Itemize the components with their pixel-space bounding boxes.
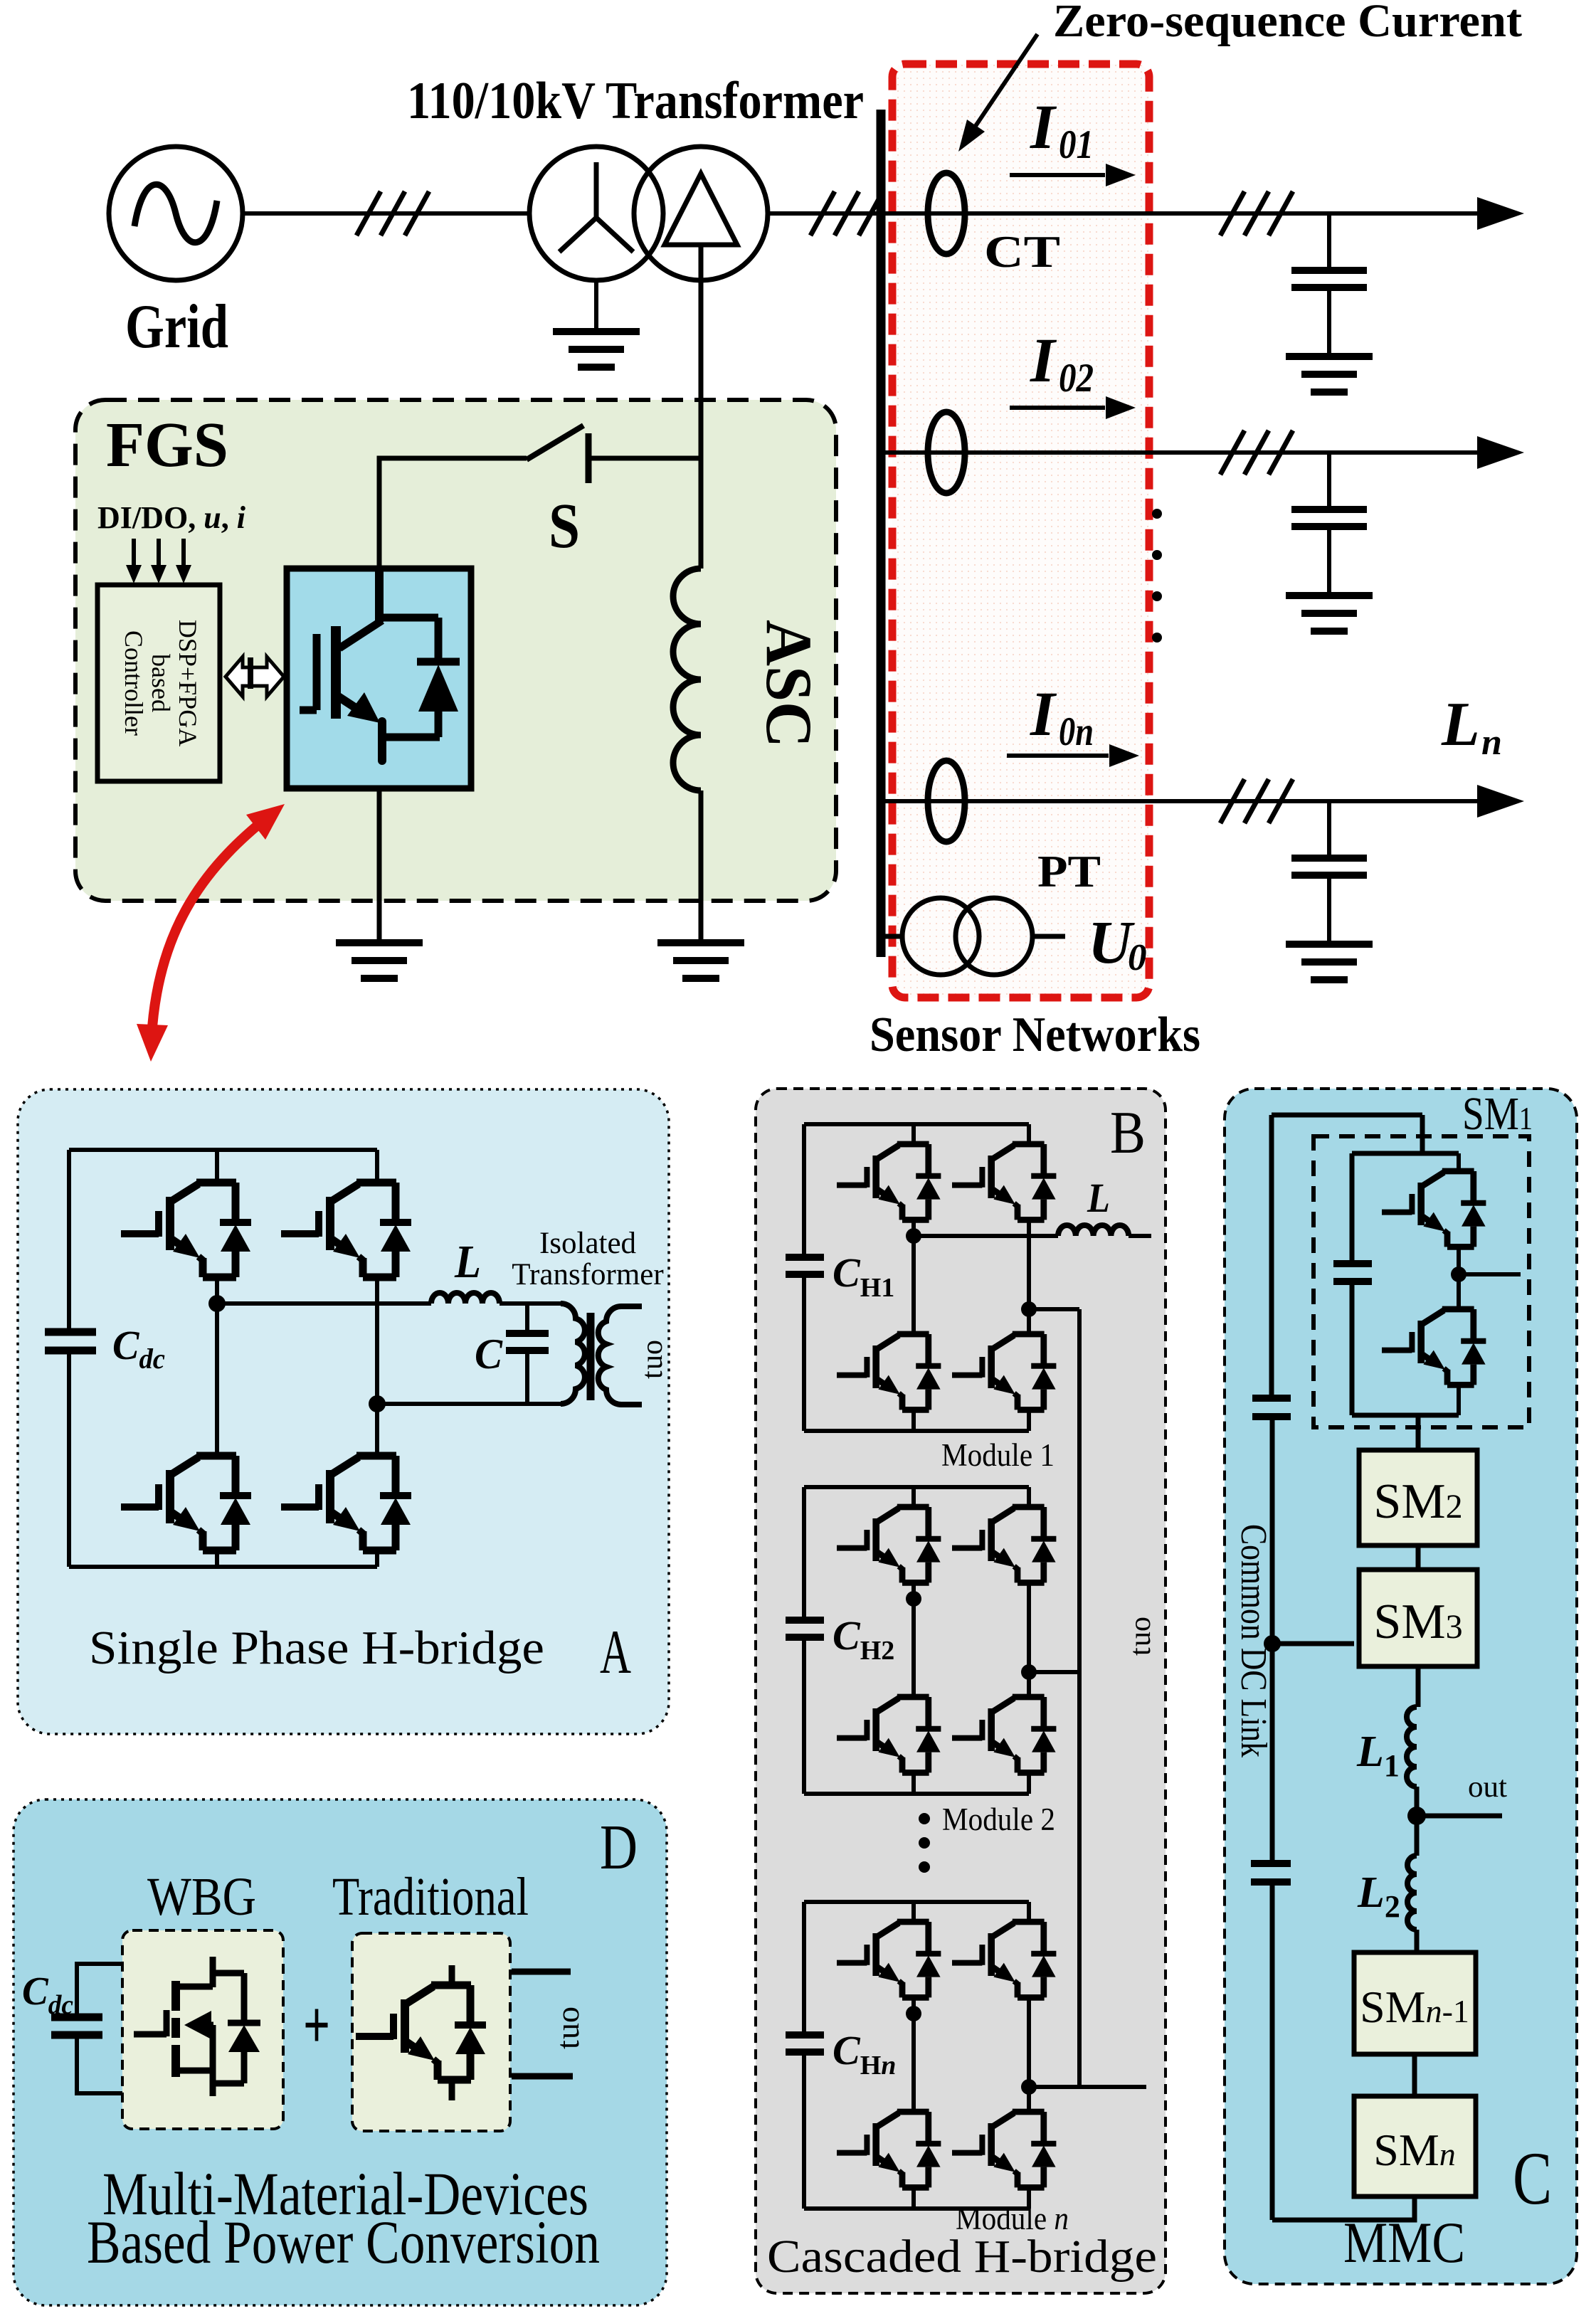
wire left node to IGBT n.3 bbox=[911, 2014, 916, 2112]
capacitor Cdc (D) bbox=[51, 2017, 102, 2035]
current arrow I0n bbox=[1007, 754, 1109, 758]
IGBT inside converter bbox=[300, 569, 460, 761]
module 1 right node bbox=[1021, 1301, 1037, 1317]
wire SM1 to SM2 bbox=[1416, 1415, 1421, 1450]
wire IGBT A2 to IGBT A4 bbox=[375, 1276, 379, 1456]
red detail arrow bbox=[152, 813, 273, 1037]
inductor L2 bbox=[1407, 1856, 1417, 1930]
IGBT module n upper-left bbox=[837, 1922, 941, 1997]
SM1 lower IGBT bbox=[1382, 1309, 1486, 1385]
H-bridge top rail bbox=[69, 1148, 377, 1152]
WBG MOSFET body arrow bbox=[184, 2011, 211, 2039]
wire node to IGBT A3 bbox=[215, 1304, 219, 1456]
capacitor C bbox=[506, 1333, 549, 1350]
IGBT module 2 lower-right bbox=[952, 1697, 1056, 1772]
transformer ground bbox=[553, 332, 640, 367]
module 1 top rail bbox=[804, 1122, 1029, 1126]
wire L to transformer bbox=[500, 1301, 561, 1306]
svg-text:PT: PT bbox=[1037, 846, 1101, 897]
wire IGBT to bottom rail bbox=[911, 2187, 916, 2209]
svg-text:Cascaded H-bridge: Cascaded H-bridge bbox=[767, 2231, 1157, 2283]
wire converter to ground bbox=[377, 788, 382, 943]
feeder 1 arrowhead bbox=[1477, 197, 1524, 230]
WBG MOSFET taps bbox=[179, 1987, 213, 2096]
wire to SM1 upper IGBT bbox=[1457, 1153, 1461, 1171]
double-headed comm arrow bbox=[226, 657, 284, 697]
SM2 box bbox=[1359, 1450, 1477, 1545]
ground feeder 1 bbox=[1286, 356, 1373, 392]
svg-text:u: u bbox=[549, 2023, 586, 2039]
DC link top wire bbox=[1272, 1115, 1422, 1153]
out bus bbox=[1077, 1309, 1082, 2087]
wire left node to IGBT 2.3 bbox=[911, 1599, 916, 1697]
ground feeder 2 bbox=[1286, 596, 1373, 631]
DC link node stub bbox=[1272, 1641, 1354, 1646]
DC link left rail bbox=[1272, 1115, 1272, 2220]
wire node to L2 bbox=[1415, 1816, 1420, 1856]
hash marks feeder 3 bbox=[1220, 779, 1293, 823]
IGBT A3 bbox=[121, 1456, 251, 1550]
wire to IGBT n.1 bbox=[911, 1902, 916, 1922]
wire IGBT to bottom rail bbox=[1027, 1772, 1031, 1794]
svg-text:o: o bbox=[636, 1340, 669, 1355]
module 2 bottom rail bbox=[804, 1792, 1029, 1796]
wire IGBT to bottom rail bbox=[1027, 2187, 1031, 2209]
IGBT module 1 lower-left bbox=[837, 1334, 941, 1410]
svg-text:S: S bbox=[549, 491, 580, 561]
PT transformer circles bbox=[902, 898, 979, 975]
station bus bbox=[877, 110, 886, 957]
capacitor CH1 bbox=[786, 1257, 824, 1274]
svg-text:L: L bbox=[1441, 690, 1480, 759]
WBG MOSFET channel bar bbox=[171, 1981, 180, 2077]
H-bridge left rail bbox=[67, 1150, 71, 1567]
wire IGBT to bottom rail bbox=[1027, 1410, 1031, 1431]
ASC ground bbox=[657, 943, 744, 978]
capacitor CH2 bbox=[786, 1620, 824, 1637]
wire SM1 lower IGBT to rail bbox=[1457, 1385, 1461, 1415]
hash marks grid line bbox=[356, 191, 429, 236]
wire IGBT to left node bbox=[911, 1582, 916, 1599]
svg-text:Traditional: Traditional bbox=[332, 1867, 529, 1927]
svg-text:u: u bbox=[636, 1355, 669, 1370]
shunt capacitor feeder 1 bbox=[1291, 213, 1367, 356]
out lead top (D) bbox=[512, 1969, 571, 1975]
module 2 top rail bbox=[804, 1485, 1029, 1489]
PT leads bbox=[881, 934, 1065, 939]
module n right node bbox=[1021, 2079, 1037, 2095]
svg-text:D: D bbox=[600, 1812, 638, 1883]
grid source circle bbox=[109, 147, 243, 280]
wire top rail to IGBT A2 bbox=[375, 1150, 379, 1183]
wire L2 to SMn-1 bbox=[1415, 1930, 1420, 1952]
IGBT module n lower-left bbox=[837, 2112, 941, 2187]
feeder 2 arrowhead bbox=[1477, 436, 1524, 469]
IGBT module 1 lower-right bbox=[952, 1334, 1056, 1410]
wire L to edge bbox=[1129, 1234, 1151, 1238]
svg-text:0n: 0n bbox=[1059, 709, 1094, 754]
wire IGBT to bottom rail bbox=[911, 1410, 916, 1431]
switch S pole bbox=[586, 433, 592, 483]
wire right leg bbox=[1027, 1582, 1031, 1697]
svg-text:CT: CT bbox=[984, 226, 1060, 277]
svg-text:n: n bbox=[1481, 722, 1502, 763]
out node (C) bbox=[1407, 1807, 1426, 1825]
wire ASC to ground bbox=[699, 791, 704, 943]
panel A box bbox=[18, 1089, 669, 1734]
delta symbol bbox=[665, 174, 737, 245]
current arrow I02 bbox=[1010, 406, 1105, 410]
IGBT module 1 upper-left bbox=[837, 1144, 941, 1220]
wire SMn-1 to SMn bbox=[1412, 2054, 1417, 2096]
DC link capacitor upper bbox=[1252, 1398, 1291, 1417]
wire transformer to bus bbox=[768, 211, 882, 216]
IGBT module n upper-right bbox=[952, 1922, 1056, 1997]
IGBT module 2 upper-right bbox=[952, 1507, 1056, 1582]
Traditional IGBT bbox=[356, 1985, 486, 2080]
svg-text:Based Power Conversion: Based Power Conversion bbox=[87, 2208, 600, 2276]
wire module 1 right node to out bus bbox=[1029, 1307, 1079, 1311]
FGS dashed box bbox=[75, 400, 836, 901]
wire right leg bbox=[1027, 1997, 1031, 2112]
zero-sequence CT 2 bbox=[928, 412, 965, 493]
svg-text:0: 0 bbox=[1128, 937, 1147, 978]
wire left node to filter bbox=[217, 1301, 431, 1306]
transformer core bar bbox=[587, 1313, 595, 1400]
svg-text:t: t bbox=[1124, 1647, 1157, 1656]
WBG diode branch bbox=[213, 1973, 244, 2083]
transformer secondary circle (delta) bbox=[634, 147, 768, 280]
svg-text:I: I bbox=[1030, 680, 1057, 749]
module n left node bbox=[906, 2006, 921, 2021]
svg-text:Sensor Networks: Sensor Networks bbox=[870, 1008, 1200, 1062]
SM1 dashed box bbox=[1314, 1136, 1529, 1427]
controller box bbox=[97, 585, 220, 781]
feeder line 3 bbox=[881, 799, 1477, 803]
ground feeder 3 bbox=[1286, 944, 1373, 980]
svg-text:C: C bbox=[475, 1331, 503, 1378]
out stub (C) bbox=[1417, 1814, 1502, 1819]
current arrow I01 bbox=[1010, 173, 1105, 177]
node right midpoint bbox=[369, 1395, 386, 1412]
WBG diode bbox=[228, 2020, 260, 2026]
IGBT module 1 upper-right bbox=[952, 1144, 1056, 1220]
svg-text:C: C bbox=[1513, 2136, 1552, 2220]
DC link capacitor lower bbox=[1251, 1863, 1291, 1882]
label out (B) bbox=[1124, 1617, 1157, 1656]
transformer neutral lead bbox=[594, 280, 598, 332]
capacitor Cdc bbox=[45, 1332, 96, 1350]
wire IGBT to left node bbox=[911, 1997, 916, 2014]
svg-text:u: u bbox=[1124, 1632, 1157, 1646]
label out (D) bbox=[549, 2007, 586, 2049]
svg-text:A: A bbox=[600, 1618, 631, 1687]
shunt capacitor feeder 2 bbox=[1291, 453, 1367, 596]
svg-text:+: + bbox=[303, 1987, 330, 2063]
wire to IGBT 2.1 bbox=[911, 1487, 916, 1507]
IGBT module n lower-right bbox=[952, 2112, 1056, 2187]
Traditional device box bbox=[352, 1933, 510, 2131]
wire to IGBT 1.1 bbox=[911, 1124, 916, 1144]
wire IGBT A1 to node bbox=[215, 1276, 219, 1304]
module 2 right node bbox=[1021, 1664, 1037, 1680]
Traditional IGBT leads bbox=[449, 1965, 455, 2100]
svg-text:DI/DO, u, i: DI/DO, u, i bbox=[97, 500, 246, 535]
wire to IGBT 2.2 bbox=[1027, 1487, 1031, 1507]
wires Cdc to WBG bbox=[77, 1964, 122, 2093]
label out (A) bbox=[636, 1340, 669, 1379]
hash marks feeder 1 bbox=[1220, 191, 1293, 236]
capacitor CHn bbox=[786, 2035, 824, 2052]
wire module 1 left node to L bbox=[914, 1234, 1058, 1238]
wire converter to switch bbox=[379, 458, 527, 569]
feeder 3 arrowhead bbox=[1477, 785, 1524, 818]
wire L1 to node bbox=[1415, 1787, 1420, 1816]
wire right node to transformer bottom bbox=[377, 1402, 561, 1406]
wire to IGBT n.2 bbox=[1027, 1902, 1031, 1922]
dots between feeders bbox=[1152, 509, 1162, 643]
IGBT module 2 lower-left bbox=[837, 1697, 941, 1772]
svg-text:B: B bbox=[1110, 1099, 1146, 1166]
wire switch to ASC line bbox=[588, 456, 701, 461]
inductor L bbox=[431, 1293, 500, 1304]
wire SM3 to L1 bbox=[1416, 1666, 1421, 1707]
svg-text:Grid: Grid bbox=[125, 292, 228, 361]
module 2 left rail bbox=[802, 1487, 806, 1794]
wire IGBT A4 to bottom rail bbox=[375, 1550, 379, 1567]
isolated transformer secondary winding bbox=[598, 1306, 642, 1405]
DI/DO input arrow bbox=[132, 539, 136, 568]
DI/DO input arrow bbox=[157, 539, 161, 568]
svg-text:Module 2: Module 2 bbox=[942, 1802, 1055, 1837]
module 1 left node bbox=[906, 1228, 921, 1244]
out lead bottom (D) bbox=[512, 2073, 573, 2080]
WBG device box bbox=[122, 1930, 283, 2129]
wire left node to IGBT 1.3 bbox=[911, 1236, 916, 1334]
DI/DO input arrow bbox=[181, 539, 186, 568]
svg-text:MMC: MMC bbox=[1343, 2210, 1465, 2275]
wire right leg bbox=[1027, 1220, 1031, 1334]
ASC converter blue box bbox=[287, 569, 471, 788]
IGBT A4 bbox=[281, 1456, 411, 1550]
hash marks transformer-bus line bbox=[810, 191, 883, 236]
grid sine wave bbox=[134, 184, 217, 242]
H-bridge bottom rail bbox=[69, 1565, 377, 1569]
module n top rail bbox=[804, 1900, 1029, 1904]
feeder line 1 bbox=[881, 211, 1477, 216]
isolated transformer primary winding bbox=[561, 1304, 585, 1404]
svg-text:ASC: ASC bbox=[753, 620, 825, 748]
svg-text:02: 02 bbox=[1059, 356, 1094, 401]
SMn box bbox=[1354, 2096, 1476, 2196]
SMn-1 box bbox=[1354, 1952, 1476, 2054]
svg-text:L: L bbox=[454, 1236, 481, 1288]
shunt capacitor feeder 3 bbox=[1291, 801, 1367, 944]
wire IGBT A3 to bottom rail bbox=[215, 1550, 219, 1567]
module 2 left node bbox=[906, 1591, 921, 1607]
wire cap C branch bbox=[525, 1304, 529, 1404]
switch S blade bbox=[527, 425, 583, 460]
svg-text:L: L bbox=[1087, 1175, 1110, 1221]
annotation arrow to CT bbox=[971, 34, 1037, 132]
IGBT module 2 upper-left bbox=[837, 1507, 941, 1582]
wire module n right node to out bbox=[1029, 2085, 1146, 2089]
SM1 upper IGBT bbox=[1382, 1171, 1486, 1247]
inductor L1 bbox=[1407, 1707, 1417, 1787]
svg-text:Single Phase H-bridge: Single Phase H-bridge bbox=[89, 1622, 544, 1674]
module n bottom rail bbox=[804, 2206, 1029, 2211]
wire SMn to DC link return bbox=[1272, 2196, 1415, 2220]
wire grid to transformer bbox=[243, 211, 529, 216]
wire transformer down to ASC bbox=[699, 246, 704, 569]
svg-text:110/10kV Transformer: 110/10kV Transformer bbox=[407, 72, 864, 130]
svg-text:Module 1: Module 1 bbox=[941, 1437, 1055, 1473]
svg-text:o: o bbox=[1124, 1617, 1157, 1632]
sensor networks red dashed box bbox=[892, 64, 1149, 998]
WBG MOSFET drain lead bbox=[213, 1957, 244, 1987]
module 1 left rail bbox=[802, 1124, 806, 1431]
svg-text:t: t bbox=[636, 1370, 669, 1379]
svg-text:Zero-sequence Current: Zero-sequence Current bbox=[1053, 0, 1522, 47]
converter ground bbox=[336, 943, 423, 978]
transformer primary circle (wye) bbox=[529, 147, 663, 280]
svg-text:o: o bbox=[549, 2007, 586, 2023]
DC link node bbox=[1264, 1635, 1281, 1652]
SM1 mid stub bbox=[1459, 1272, 1521, 1276]
zero-sequence CT 3 bbox=[928, 761, 965, 842]
panel C box bbox=[1225, 1089, 1577, 2284]
SM3 box bbox=[1359, 1570, 1477, 1666]
svg-text:FGS: FGS bbox=[106, 410, 228, 480]
wire IGBT to bottom rail bbox=[911, 1772, 916, 1794]
IGBT A1 bbox=[121, 1183, 251, 1277]
wire top rail to IGBT A1 bbox=[215, 1150, 219, 1183]
node left midpoint bbox=[208, 1295, 226, 1312]
module 1 bottom rail bbox=[804, 1429, 1029, 1433]
ASC arc-suppression coil bbox=[673, 569, 701, 791]
zero-sequence CT 1 bbox=[928, 173, 965, 254]
SM1 mid node bbox=[1451, 1267, 1466, 1282]
wire to IGBT 1.2 bbox=[1027, 1124, 1031, 1144]
SM1 top rail bbox=[1352, 1151, 1459, 1156]
svg-text:WBG: WBG bbox=[147, 1867, 256, 1927]
SM1 left branch bbox=[1350, 1153, 1355, 1415]
wye symbol bbox=[559, 162, 633, 252]
hash marks feeder 2 bbox=[1220, 430, 1293, 475]
panel B box bbox=[756, 1089, 1166, 2293]
dots modules bbox=[919, 1813, 930, 1873]
inductor L (B) bbox=[1058, 1225, 1129, 1236]
feeder line 2 bbox=[881, 450, 1477, 455]
svg-text:I: I bbox=[1030, 326, 1057, 396]
wire IGBT to left node bbox=[911, 1220, 916, 1236]
svg-text:Common DC Link: Common DC Link bbox=[1233, 1524, 1274, 1757]
IGBT A2 bbox=[281, 1183, 411, 1277]
SM1 bottom rail bbox=[1352, 1413, 1459, 1418]
panel D box bbox=[14, 1799, 667, 2305]
wire SM2 to SM3 bbox=[1416, 1545, 1421, 1570]
module n left rail bbox=[802, 1902, 806, 2209]
wire module 2 right node to out bus bbox=[1029, 1670, 1079, 1674]
svg-text:I: I bbox=[1030, 92, 1057, 162]
svg-text:out: out bbox=[1468, 1771, 1507, 1804]
SM1 capacitor bbox=[1333, 1264, 1372, 1281]
wire SM1 mid bbox=[1457, 1247, 1461, 1309]
WBG MOSFET gate bbox=[134, 2010, 167, 2036]
svg-text:01: 01 bbox=[1059, 122, 1094, 167]
svg-text:t: t bbox=[549, 2040, 586, 2049]
